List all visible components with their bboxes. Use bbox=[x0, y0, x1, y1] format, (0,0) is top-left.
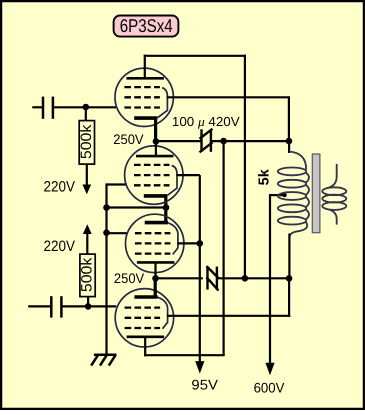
resistor R2 500k bbox=[79, 254, 96, 306]
label 220V (lower) bbox=[44, 238, 76, 255]
tube V2 (6P3S) bbox=[125, 146, 183, 204]
arrow to 220V rail (down) bbox=[82, 164, 91, 194]
node: C2/R2 junction bbox=[85, 303, 92, 310]
wire V1 plate drop to B+ node bbox=[244, 55, 246, 279]
wire transformer center tap bbox=[270, 193, 287, 197]
node: B+ node on C4 line bbox=[242, 275, 249, 282]
tube V1 (6P3S, top) bbox=[115, 68, 173, 126]
wire V2 cathode lead bbox=[164, 195, 167, 209]
ground bbox=[91, 355, 116, 366]
wire C2 to V4 grid bbox=[88, 305, 116, 307]
wire V4 screen grid run bbox=[167, 315, 290, 317]
arrow from 220V rail (up) bbox=[83, 224, 92, 254]
transformer T1 secondary winding bbox=[322, 164, 346, 225]
resistor R1 500k bbox=[78, 107, 95, 164]
svg-text:5k: 5k bbox=[257, 168, 273, 185]
label 5k bbox=[257, 168, 273, 185]
wire cathode link (V2/V3 cathodes to ground bus) bbox=[107, 206, 167, 208]
svg-text:250V: 250V bbox=[114, 271, 145, 286]
wire V1 cathode lead bbox=[154, 120, 157, 142]
wire V4 plate lead bbox=[144, 337, 146, 357]
wire C4 to transformer bottom node bbox=[217, 277, 289, 279]
wire V1 screen grid run bbox=[167, 96, 290, 98]
svg-text:600V: 600V bbox=[254, 379, 285, 395]
svg-text:95V: 95V bbox=[191, 376, 218, 392]
node: V2/V3 screen junction bbox=[197, 240, 204, 247]
node: V2/V3 cathode junction bbox=[163, 204, 170, 211]
wire ground bus vertical bbox=[105, 183, 107, 354]
node: ground bus / V3 grid bbox=[103, 229, 110, 236]
node: C3 right junction bbox=[220, 138, 227, 145]
capacitor C2 (input, bottom) bbox=[28, 296, 88, 317]
wire V3 screen grid run bbox=[177, 242, 200, 244]
node: C1/R1 junction bbox=[83, 104, 90, 111]
node: V3 plate / V4 cathode bbox=[152, 275, 159, 282]
svg-text:500k: 500k bbox=[79, 257, 96, 292]
wire V1 plate lead bbox=[144, 55, 146, 79]
wire V4 cathode lead bbox=[154, 278, 157, 296]
label 100u 420V bbox=[172, 114, 240, 129]
label 220V (upper) bbox=[44, 178, 76, 195]
wire screen riser to transformer top bbox=[288, 97, 290, 141]
label 95V bbox=[191, 376, 218, 392]
wire V3 plate lead bbox=[154, 262, 156, 278]
wire V3 grid bbox=[107, 232, 128, 234]
svg-text:250V: 250V bbox=[113, 132, 144, 147]
wire V2 screen grid run bbox=[176, 174, 200, 176]
capacitor C4 100u electrolytic bbox=[207, 266, 219, 291]
svg-text:100 μ 420V: 100 μ 420V bbox=[172, 114, 240, 129]
wire junction to C3 bbox=[156, 140, 202, 142]
wire V2 grid bbox=[107, 183, 128, 185]
transformer T1 core bbox=[312, 154, 320, 233]
svg-text:6P3Sx4: 6P3Sx4 bbox=[120, 15, 173, 36]
wire junction to C4 bbox=[156, 277, 203, 279]
wire V4 screen riser bbox=[288, 278, 290, 317]
wire C3 junction drop to V4 plate bbox=[223, 141, 225, 355]
wire V2 plate lead bbox=[155, 141, 157, 157]
tube V4 (6P3S, inverted, bottom) bbox=[115, 289, 173, 347]
label 600V bbox=[254, 379, 285, 395]
node: transformer top / screen node bbox=[286, 138, 293, 145]
node: V1 cathode / V2 plate bbox=[153, 138, 160, 145]
svg-text:500k: 500k bbox=[78, 124, 95, 159]
svg-text:220V: 220V bbox=[44, 178, 76, 195]
wire 95V drop bbox=[195, 175, 204, 374]
tube V3 (6P3S, inverted) bbox=[126, 214, 184, 272]
wire V4 plate bottom run bbox=[144, 354, 225, 356]
svg-text:220V: 220V bbox=[44, 238, 76, 255]
title box 6P3Sx4 bbox=[114, 15, 179, 37]
wire 600V drop bbox=[265, 194, 274, 375]
wire V3 cathode lead bbox=[164, 208, 167, 224]
transformer T1 primary winding bbox=[278, 140, 309, 279]
wire C3 to transformer top node bbox=[211, 140, 289, 142]
label 250V (lower) bbox=[114, 271, 145, 286]
capacitor C1 (input, top) bbox=[32, 97, 116, 119]
node: transformer bottom node bbox=[286, 275, 293, 282]
wire V1 plate top run bbox=[144, 55, 246, 57]
label 250V (upper) bbox=[113, 132, 144, 147]
node: ground bus / cathode link bbox=[103, 204, 110, 211]
capacitor C3 100u electrolytic bbox=[200, 129, 213, 153]
